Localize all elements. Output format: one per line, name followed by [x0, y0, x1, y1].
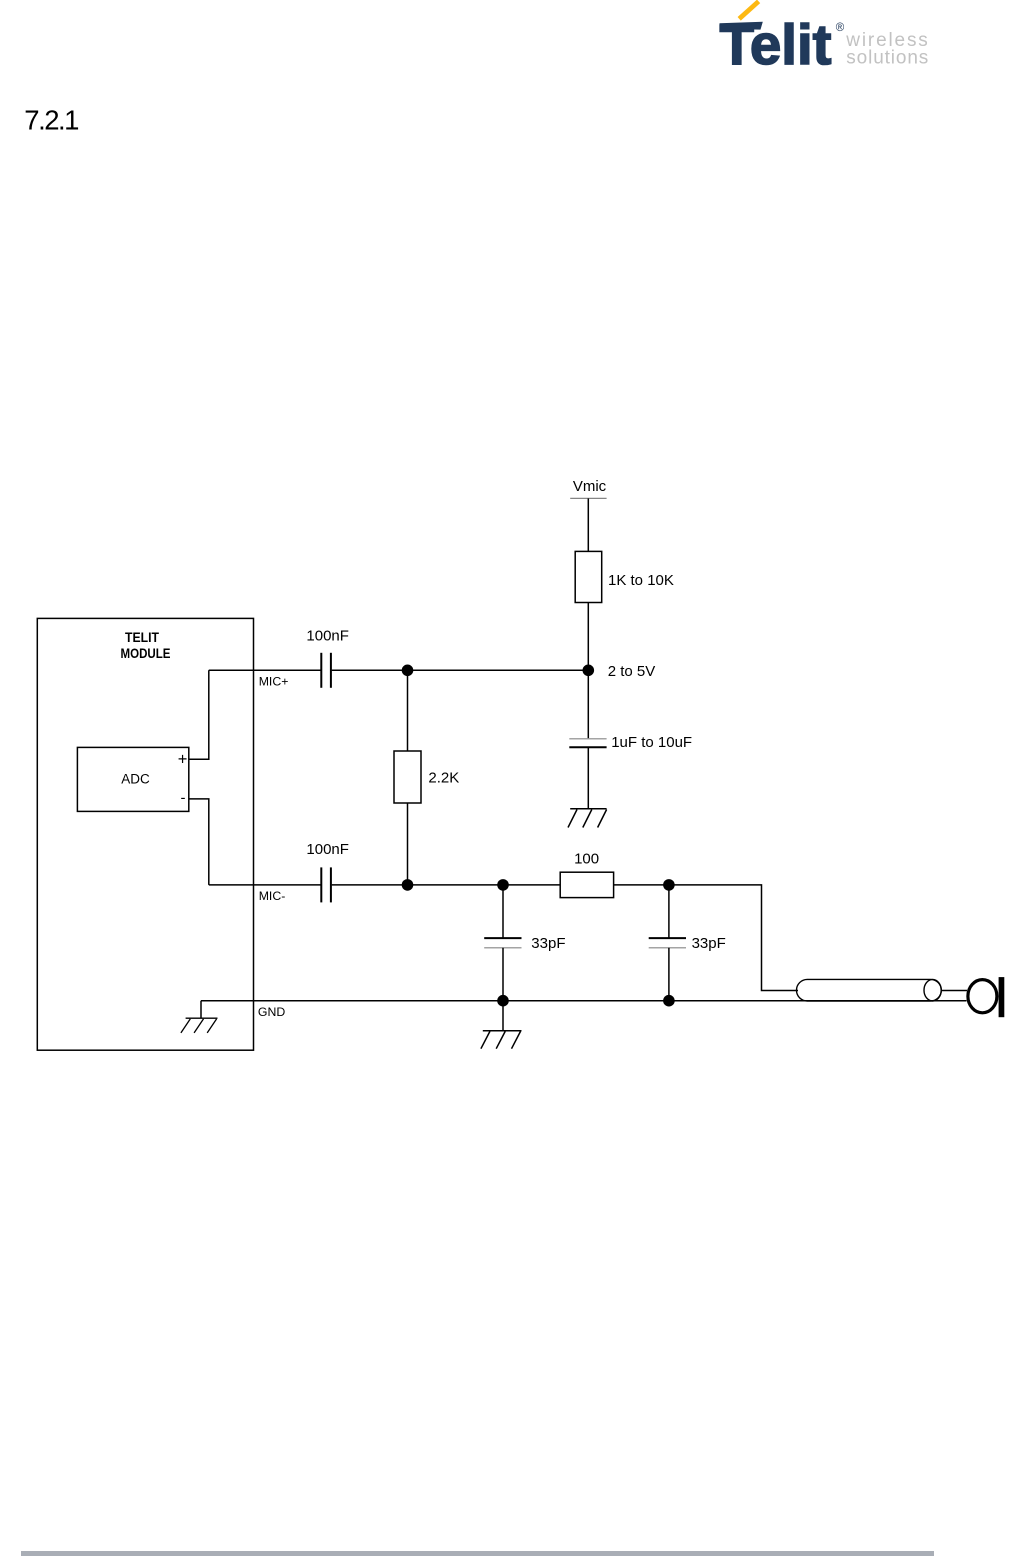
capacitor 100nF (bottom) [321, 867, 331, 902]
microphone capsule end ellipse [924, 979, 941, 1001]
svg-text:33pF: 33pF [531, 935, 565, 952]
wire module internal ground drop [200, 1001, 202, 1019]
svg-text:2.2K: 2.2K [428, 770, 459, 787]
telit module label [121, 629, 171, 661]
resistor 2.2K [394, 751, 421, 803]
svg-text:-: - [181, 790, 186, 807]
node junction GND/33pF left [497, 995, 509, 1007]
capacitor 33pF (left) [484, 938, 521, 948]
svg-text:GND: GND [258, 1005, 285, 1019]
wire 2.2K to MIC- node [407, 803, 409, 885]
wire MIC+ node to 2.2K [407, 670, 409, 751]
svg-text:2 to 5V: 2 to 5V [608, 663, 656, 680]
net Vmic underline [570, 497, 606, 499]
wire MIC- line [209, 884, 560, 886]
wire MIC+ line [209, 669, 589, 671]
resistor 100 [560, 872, 613, 897]
svg-text:1uF to 10uF: 1uF to 10uF [611, 734, 692, 751]
wire capacitor to ground [587, 747, 589, 809]
node junction MIC-/2.2K [402, 879, 414, 891]
resistor 1K to 10K [575, 551, 602, 602]
svg-text:MIC+: MIC+ [259, 674, 289, 688]
svg-text:33pF: 33pF [692, 935, 726, 952]
wire ADC plus stub [189, 670, 209, 759]
svg-text:100: 100 [574, 851, 599, 868]
svg-text:Vmic: Vmic [573, 478, 607, 495]
wire resistor 100 to right node [614, 884, 669, 886]
wire ADC minus stub [189, 799, 209, 885]
svg-text:+: + [178, 751, 188, 769]
node junction MIC-/33pF left [497, 879, 509, 891]
ground symbol (below left 33pF) [481, 1031, 522, 1049]
svg-text:MODULE: MODULE [121, 645, 171, 661]
svg-text:ADC: ADC [121, 771, 150, 786]
logo T swoosh bar [720, 22, 763, 30]
node junction 33pF right [663, 879, 675, 891]
wire 33pF right lower [668, 948, 670, 1001]
svg-text:7.2.1: 7.2.1 [24, 105, 78, 136]
wire ground drop below left 33pF [502, 1001, 504, 1031]
wire node to capacitor 1uF [587, 670, 589, 738]
node junction MIC+/2.2K [402, 665, 414, 677]
capacitor 100nF (top) [321, 653, 331, 688]
ADC block [77, 747, 188, 811]
microphone body capsule [797, 979, 942, 1001]
wire to microphone (down and right) [669, 885, 798, 991]
wire 33pF left lower [502, 948, 504, 1001]
svg-text:1K to 10K: 1K to 10K [608, 572, 674, 589]
node junction 2 to 5V [583, 665, 595, 677]
footer bar [21, 1551, 934, 1557]
ground symbol (Vmic branch) [568, 809, 607, 828]
wire capsule to mic head [941, 990, 967, 992]
microphone head circle [968, 980, 997, 1013]
logo yellow slash [739, 1, 758, 18]
capacitor 1uF to 10uF [569, 739, 606, 747]
ground symbol (module internal) [181, 1018, 218, 1033]
capacitor 33pF (right) [649, 938, 686, 948]
wire GND line [201, 1000, 967, 1002]
node junction GND/33pF right [663, 995, 675, 1007]
svg-text:MIC-: MIC- [259, 889, 286, 903]
wire 33pF left upper [502, 885, 504, 938]
svg-text:100nF: 100nF [306, 841, 349, 858]
svg-text:100nF: 100nF [306, 628, 349, 645]
wire Vmic to resistor [587, 498, 589, 551]
microphone head bar [999, 977, 1005, 1017]
Telit logo [700, 0, 1013, 80]
wire resistor to node [587, 603, 589, 671]
svg-text:TELIT: TELIT [125, 629, 159, 645]
telit module box [37, 618, 253, 1050]
wire 33pF right upper [668, 885, 670, 938]
